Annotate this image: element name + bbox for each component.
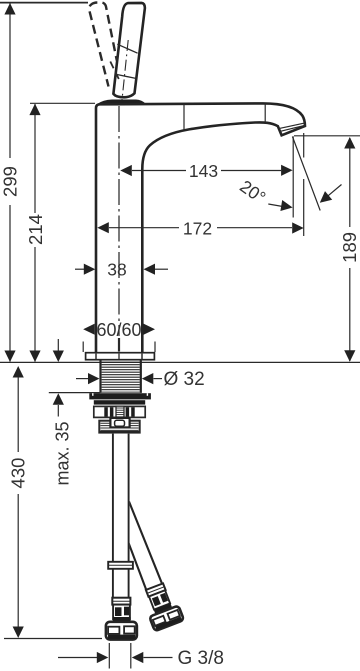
deck line [0,361,360,363]
svg-text:143: 143 [189,161,218,181]
spout joint line 2 [264,104,266,123]
locking ring [94,400,145,404]
hose nipple [110,418,129,428]
right hose connector [140,581,184,631]
handle (dashed alternate position) [89,2,117,86]
svg-text:299: 299 [0,166,21,197]
dim max. 35 [49,339,100,486]
spout joint line 1 [183,104,185,129]
dim 430 [8,366,29,638]
left hose tube [112,434,130,605]
handle cross line 1 [117,44,137,53]
dim G 3/8 [58,643,224,669]
washer flange [89,393,151,399]
svg-text:189: 189 [339,232,360,263]
faucet centerline [118,106,120,352]
svg-text:60/60: 60/60 [96,320,141,340]
left hose connector [106,598,137,640]
base plate [86,353,155,360]
dim 60/60 [83,320,155,352]
aerator lines [279,123,305,131]
20 deg leader to stream [320,185,342,203]
handle cross line 2 [116,74,135,78]
threaded shank [101,361,141,393]
spray stream line 20 deg [292,137,320,211]
handle inner dashed detail [110,62,119,80]
handle (solid) [113,3,144,97]
svg-text:max. 35: max. 35 [52,421,72,485]
lower hatch band [99,421,139,433]
handle pivot base [98,100,146,104]
top reference line (handle top level) [0,2,88,4]
mounting nut [94,406,145,417]
svg-text:430: 430 [8,458,29,489]
dim 143 [120,161,292,181]
left hose ferrule [108,562,133,569]
dim 299 [0,3,21,362]
dim diameter 32 [76,369,205,390]
svg-text:G 3/8: G 3/8 [178,648,224,669]
dim 172 [97,219,303,239]
svg-text:172: 172 [183,219,212,239]
20 deg leader to vertical [268,200,292,211]
handle axis centerline [122,40,128,102]
hose end reference line [4,638,102,640]
spout tip extension line 1 [292,136,294,217]
svg-text:Ø 32: Ø 32 [164,369,205,390]
right hose (behind) [129,502,163,591]
20 deg label [236,176,269,208]
dim 189 [294,136,360,362]
svg-text:38: 38 [107,260,126,280]
spout tip extension line 2 [303,133,305,236]
dim 214 [25,103,95,362]
faucet body and spout outline [96,103,305,353]
dim 38 [75,260,168,280]
threaded rod [116,406,124,420]
svg-text:214: 214 [25,214,46,245]
